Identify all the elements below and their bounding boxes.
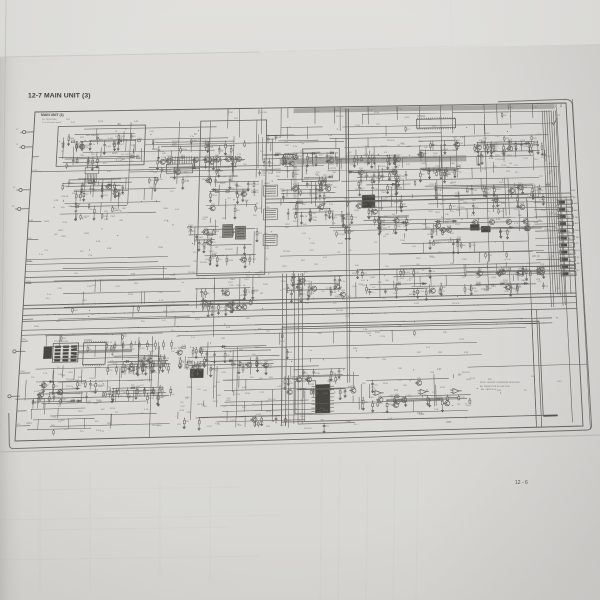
svg-text:100: 100 <box>208 260 212 262</box>
svg-text:IC3: IC3 <box>372 287 376 289</box>
svg-text:TP2: TP2 <box>87 403 92 405</box>
svg-text:100: 100 <box>197 389 201 391</box>
svg-text:Q105: Q105 <box>491 277 497 279</box>
svg-text:C214: C214 <box>419 291 425 293</box>
svg-text:10K: 10K <box>280 425 284 427</box>
svg-text:IC101 AN7312: IC101 AN7312 <box>54 340 69 343</box>
svg-text:10K: 10K <box>445 214 449 216</box>
svg-text:560: 560 <box>441 217 445 219</box>
svg-text:J2: J2 <box>16 144 19 146</box>
svg-text:C112: C112 <box>229 285 235 287</box>
svg-text:P7: P7 <box>576 243 579 245</box>
svg-text:2.2u: 2.2u <box>293 146 298 148</box>
svg-text:0.022: 0.022 <box>523 280 529 282</box>
svg-text:4.7K: 4.7K <box>84 147 89 149</box>
svg-text:J2: J2 <box>12 206 15 208</box>
svg-text:2SC945: 2SC945 <box>200 262 208 264</box>
svg-text:560: 560 <box>362 285 366 287</box>
svg-text:R118: R118 <box>92 190 98 192</box>
svg-text:220: 220 <box>276 176 280 178</box>
svg-text:33K: 33K <box>116 190 120 192</box>
svg-text:220: 220 <box>255 192 259 194</box>
svg-text:R305: R305 <box>294 174 300 176</box>
svg-text:Q105: Q105 <box>120 136 126 138</box>
svg-text:R157: R157 <box>227 307 233 309</box>
svg-text:R41: R41 <box>86 135 91 137</box>
svg-text:C214: C214 <box>360 170 366 172</box>
svg-text:100K: 100K <box>73 310 78 312</box>
svg-text:(IC,TR,DIODE): (IC,TR,DIODE) <box>42 119 57 121</box>
svg-text:560: 560 <box>139 391 143 393</box>
svg-text:33K: 33K <box>107 423 111 425</box>
svg-text:2SC945: 2SC945 <box>452 303 460 305</box>
svg-text:R216: R216 <box>228 260 234 262</box>
svg-text:C88: C88 <box>473 190 478 192</box>
svg-text:C73: C73 <box>140 374 145 376</box>
svg-text:6.8K: 6.8K <box>284 141 289 143</box>
svg-text:4.7K: 4.7K <box>482 169 487 171</box>
svg-text:100K: 100K <box>380 177 385 179</box>
svg-text:0.01: 0.01 <box>175 209 180 211</box>
svg-text:100K: 100K <box>502 149 507 151</box>
svg-text:C107: C107 <box>519 276 525 278</box>
svg-text:C73: C73 <box>156 348 161 350</box>
svg-text:Q105: Q105 <box>66 402 72 404</box>
svg-text:TP2: TP2 <box>283 289 288 291</box>
svg-text:0.01: 0.01 <box>398 380 403 382</box>
svg-text:C214: C214 <box>380 336 386 338</box>
svg-text:J1-4: J1-4 <box>576 250 581 252</box>
svg-text:TP2: TP2 <box>268 166 273 168</box>
svg-text:L21: L21 <box>440 204 444 206</box>
svg-text:47u: 47u <box>234 176 238 178</box>
svg-text:4.7K: 4.7K <box>43 373 48 375</box>
svg-text:10K: 10K <box>231 405 235 407</box>
svg-text:10K: 10K <box>313 220 317 222</box>
svg-text:100K: 100K <box>504 291 509 293</box>
svg-text:C88: C88 <box>119 220 124 222</box>
svg-text:6.8K: 6.8K <box>343 226 348 228</box>
svg-text:IC3: IC3 <box>217 424 220 426</box>
svg-text:C214: C214 <box>293 303 299 305</box>
svg-text:2SC945: 2SC945 <box>378 166 386 168</box>
svg-text:10K: 10K <box>488 288 492 290</box>
svg-text:TP2: TP2 <box>541 210 546 212</box>
svg-text:2SC: 2SC <box>215 155 220 157</box>
svg-text:R157: R157 <box>285 224 291 226</box>
svg-text:0.022: 0.022 <box>369 161 375 163</box>
svg-text:D12: D12 <box>140 385 145 387</box>
svg-text:8V: 8V <box>577 257 580 259</box>
svg-text:47u: 47u <box>260 422 264 424</box>
svg-text:2.2u: 2.2u <box>91 144 96 146</box>
svg-text:TP2: TP2 <box>167 165 172 167</box>
svg-text:R118: R118 <box>289 289 295 291</box>
svg-text:2SC945: 2SC945 <box>387 140 395 142</box>
svg-text:R216: R216 <box>264 248 270 250</box>
svg-text:R157: R157 <box>103 195 109 197</box>
svg-text:R216: R216 <box>128 294 134 296</box>
svg-text:L21: L21 <box>249 184 253 186</box>
svg-text:2SC: 2SC <box>237 303 242 305</box>
svg-text:4.7K: 4.7K <box>508 139 513 141</box>
svg-text:R157: R157 <box>446 422 452 424</box>
svg-text:10K: 10K <box>259 378 263 380</box>
svg-text:100K: 100K <box>347 331 352 333</box>
svg-text:J2: J2 <box>16 129 19 131</box>
svg-text:33K: 33K <box>70 183 74 185</box>
svg-text:R41: R41 <box>246 318 251 320</box>
svg-text:4.7K: 4.7K <box>555 288 560 290</box>
svg-text:R216: R216 <box>75 204 81 206</box>
svg-text:2SC945: 2SC945 <box>197 404 205 406</box>
svg-text:R41: R41 <box>131 145 136 147</box>
svg-text:C88: C88 <box>389 187 394 189</box>
svg-text:TP2: TP2 <box>325 426 330 428</box>
svg-text:100K: 100K <box>446 209 451 211</box>
svg-text:Q105: Q105 <box>370 158 376 160</box>
svg-text:Q101: Q101 <box>176 168 182 170</box>
svg-text:Q105: Q105 <box>546 156 552 158</box>
svg-text:TP2: TP2 <box>376 124 381 126</box>
svg-text:0.022: 0.022 <box>216 395 222 397</box>
svg-text:VR3: VR3 <box>99 381 104 383</box>
svg-text:100K: 100K <box>280 341 285 343</box>
svg-text:R305: R305 <box>34 326 40 328</box>
svg-text:R216: R216 <box>300 274 306 276</box>
svg-text:220: 220 <box>181 361 185 363</box>
svg-text:2SC945: 2SC945 <box>355 189 363 191</box>
svg-text:C112: C112 <box>89 378 95 380</box>
svg-text:L21: L21 <box>383 236 387 238</box>
svg-text:47u: 47u <box>334 217 338 219</box>
svg-text:C107: C107 <box>527 197 533 199</box>
svg-text:C73: C73 <box>131 274 136 276</box>
svg-text:C112: C112 <box>309 250 315 252</box>
svg-text:C112: C112 <box>246 143 252 145</box>
svg-text:220: 220 <box>359 182 363 184</box>
svg-text:0.022: 0.022 <box>436 194 442 196</box>
svg-text:R305: R305 <box>209 251 215 253</box>
svg-text:C107: C107 <box>158 292 164 294</box>
svg-text:10K: 10K <box>476 277 480 279</box>
svg-text:L21: L21 <box>418 137 422 139</box>
svg-text:33K: 33K <box>131 349 135 351</box>
svg-text:R216: R216 <box>85 145 91 147</box>
svg-text:R118: R118 <box>516 286 522 288</box>
svg-text:10K: 10K <box>450 263 454 265</box>
svg-text:4.7K: 4.7K <box>274 236 279 238</box>
svg-text:VR3: VR3 <box>22 339 27 341</box>
svg-text:R157: R157 <box>74 161 80 163</box>
svg-text:R118: R118 <box>61 399 67 401</box>
svg-text:0.022: 0.022 <box>34 391 40 393</box>
svg-text:C214: C214 <box>470 378 476 380</box>
svg-text:C112: C112 <box>547 258 553 260</box>
svg-text:R118: R118 <box>91 184 97 186</box>
svg-text:J2: J2 <box>13 187 16 189</box>
svg-text:Q12: Q12 <box>161 157 166 159</box>
svg-text:C107: C107 <box>76 144 82 146</box>
svg-text:C107: C107 <box>451 206 457 208</box>
svg-text:100K: 100K <box>422 153 427 155</box>
svg-text:Q105: Q105 <box>68 372 74 374</box>
svg-text:R41: R41 <box>301 260 306 262</box>
svg-text:220: 220 <box>366 358 370 360</box>
svg-text:Q101: Q101 <box>207 238 213 240</box>
svg-text:R118: R118 <box>254 290 260 292</box>
svg-text:4.7K: 4.7K <box>32 403 37 405</box>
svg-text:6.8K: 6.8K <box>58 374 63 376</box>
svg-text:IC3: IC3 <box>407 129 411 131</box>
svg-text:C88: C88 <box>531 376 536 378</box>
svg-text:47u: 47u <box>515 172 518 174</box>
svg-text:560: 560 <box>534 159 538 161</box>
svg-text:R118: R118 <box>347 231 353 233</box>
svg-text:2.2u: 2.2u <box>471 215 476 217</box>
svg-text:0.022: 0.022 <box>234 228 240 230</box>
svg-text:1K: 1K <box>407 224 410 226</box>
svg-text:1K: 1K <box>232 150 235 152</box>
svg-text:C112: C112 <box>524 269 530 271</box>
svg-text:6.8K: 6.8K <box>347 202 352 204</box>
svg-text:2.2u: 2.2u <box>47 294 52 296</box>
svg-text:100K: 100K <box>26 281 31 283</box>
svg-text:AF9: AF9 <box>575 222 580 225</box>
svg-text:2.2u: 2.2u <box>39 254 44 256</box>
svg-text:6.8K: 6.8K <box>29 220 34 222</box>
svg-text:R118: R118 <box>203 217 209 219</box>
svg-text:GND: GND <box>569 267 574 269</box>
svg-text:6.8K: 6.8K <box>277 137 282 139</box>
svg-text:560: 560 <box>250 377 254 379</box>
svg-text:0.01: 0.01 <box>268 193 272 195</box>
svg-text:C112: C112 <box>368 208 374 210</box>
svg-text:1K: 1K <box>524 390 527 392</box>
svg-text:2SC945: 2SC945 <box>283 251 291 253</box>
svg-text:C112: C112 <box>520 140 526 142</box>
svg-text:R157: R157 <box>166 364 172 366</box>
svg-text:TP2: TP2 <box>539 176 544 178</box>
svg-text:C214: C214 <box>170 275 176 277</box>
svg-text:R216: R216 <box>458 143 464 145</box>
svg-text:0.022: 0.022 <box>269 139 275 141</box>
svg-text:33K: 33K <box>362 383 366 385</box>
svg-text:2SC: 2SC <box>538 268 543 270</box>
svg-text:R216: R216 <box>213 401 219 403</box>
svg-text:100K: 100K <box>433 153 438 155</box>
svg-text:0.01: 0.01 <box>107 171 112 173</box>
svg-text:R216: R216 <box>267 365 273 367</box>
svg-text:10K: 10K <box>372 214 376 216</box>
svg-text:R41: R41 <box>141 321 146 323</box>
svg-text:33K: 33K <box>378 282 382 284</box>
svg-text:33K: 33K <box>91 154 95 156</box>
svg-text:100: 100 <box>109 370 113 372</box>
svg-text:L21: L21 <box>192 312 195 314</box>
svg-text:R41: R41 <box>322 179 327 181</box>
svg-text:10K: 10K <box>153 372 157 374</box>
svg-text:10K: 10K <box>242 407 246 409</box>
svg-text:10K: 10K <box>149 187 153 189</box>
svg-text:100K: 100K <box>500 159 505 161</box>
svg-text:R305: R305 <box>98 386 104 388</box>
svg-text:C107: C107 <box>87 286 93 288</box>
svg-text:33K: 33K <box>287 420 291 422</box>
svg-text:Q101: Q101 <box>242 190 248 192</box>
svg-text:10K: 10K <box>200 244 204 246</box>
svg-text:R305: R305 <box>450 163 456 165</box>
svg-text:IC3: IC3 <box>384 152 388 154</box>
svg-text:Q73: Q73 <box>264 361 269 363</box>
svg-text:C88: C88 <box>221 338 226 340</box>
svg-text:100: 100 <box>136 155 140 157</box>
svg-text:2SC: 2SC <box>518 183 523 185</box>
svg-text:0.01: 0.01 <box>160 388 165 390</box>
svg-text:33K: 33K <box>92 334 96 336</box>
svg-text:R157: R157 <box>89 164 95 166</box>
svg-text:D12: D12 <box>255 184 260 186</box>
svg-text:4.7K: 4.7K <box>139 368 144 370</box>
svg-text:R216: R216 <box>353 348 358 350</box>
svg-text:10K: 10K <box>45 385 49 387</box>
svg-text:2SC945: 2SC945 <box>338 234 346 236</box>
svg-text:R216: R216 <box>103 216 109 218</box>
svg-text:47u: 47u <box>495 207 499 209</box>
svg-text:C73: C73 <box>395 167 400 169</box>
svg-text:4.7K: 4.7K <box>147 368 152 370</box>
svg-text:C107: C107 <box>218 151 224 153</box>
svg-text:10K: 10K <box>178 358 182 360</box>
svg-text:Q101: Q101 <box>525 224 531 226</box>
svg-text:C88: C88 <box>80 155 85 157</box>
svg-text:C112: C112 <box>115 286 121 288</box>
svg-text:D12: D12 <box>125 154 130 156</box>
svg-text:4.7K: 4.7K <box>444 176 449 178</box>
svg-text:C73: C73 <box>260 392 265 394</box>
svg-text:33K: 33K <box>443 332 447 334</box>
svg-text:2SC: 2SC <box>378 396 383 398</box>
svg-text:100: 100 <box>332 223 336 225</box>
svg-text:C88: C88 <box>398 368 403 370</box>
svg-text:0.01: 0.01 <box>323 257 328 259</box>
svg-text:R305: R305 <box>61 236 67 238</box>
svg-text:C88: C88 <box>229 112 234 114</box>
svg-text:C107: C107 <box>82 300 88 302</box>
svg-text:C112: C112 <box>149 131 155 133</box>
svg-text:220: 220 <box>319 155 323 157</box>
svg-text:100K: 100K <box>236 285 241 287</box>
svg-text:R216: R216 <box>300 416 306 418</box>
svg-text:C112: C112 <box>57 288 63 290</box>
svg-text:R157: R157 <box>163 311 169 313</box>
svg-text:2.2u: 2.2u <box>353 217 358 219</box>
svg-text:D12: D12 <box>167 306 172 308</box>
svg-text:47u: 47u <box>342 299 345 301</box>
svg-text:C112: C112 <box>72 388 78 390</box>
svg-text:33K: 33K <box>445 222 449 224</box>
svg-text:6.8K: 6.8K <box>54 200 59 202</box>
svg-text:R41: R41 <box>472 200 477 202</box>
svg-text:C107: C107 <box>481 289 487 291</box>
svg-text:C73: C73 <box>332 168 337 170</box>
svg-text:2SC945: 2SC945 <box>336 116 344 118</box>
svg-text:TP2: TP2 <box>68 206 73 208</box>
svg-text:R118: R118 <box>476 282 482 284</box>
svg-text:100K: 100K <box>163 208 169 210</box>
svg-text:R305: R305 <box>91 135 97 137</box>
svg-text:IC3: IC3 <box>299 142 302 144</box>
svg-text:R216: R216 <box>345 219 351 221</box>
svg-text:220: 220 <box>495 146 499 148</box>
svg-text:R305: R305 <box>359 160 365 162</box>
svg-text:220: 220 <box>212 242 216 244</box>
svg-text:D12: D12 <box>305 303 310 305</box>
svg-text:R41: R41 <box>66 119 71 121</box>
svg-text:TP2: TP2 <box>266 331 271 333</box>
svg-text:Q105: Q105 <box>115 210 121 212</box>
svg-text:0.01: 0.01 <box>61 143 66 145</box>
svg-text:C107: C107 <box>381 192 387 194</box>
svg-text:100: 100 <box>385 266 389 268</box>
svg-text:Q105: Q105 <box>188 231 194 233</box>
svg-text:R41: R41 <box>372 403 377 405</box>
svg-text:R305: R305 <box>201 364 207 366</box>
svg-text:R157: R157 <box>422 224 428 226</box>
svg-text:33K: 33K <box>187 412 191 414</box>
svg-text:D12: D12 <box>258 233 263 235</box>
svg-text:R118: R118 <box>502 231 508 233</box>
svg-text:R157: R157 <box>330 181 336 183</box>
svg-text:6.8K: 6.8K <box>434 409 439 411</box>
svg-text:33K: 33K <box>207 160 211 162</box>
svg-text:10K: 10K <box>403 385 407 387</box>
svg-text:SQL: SQL <box>568 245 573 247</box>
svg-text:R216: R216 <box>172 145 177 147</box>
svg-text:47u: 47u <box>379 403 383 405</box>
svg-text:47u: 47u <box>64 429 68 431</box>
svg-text:4.7K: 4.7K <box>430 171 435 173</box>
svg-text:47u: 47u <box>150 180 153 182</box>
svg-text:6.8K: 6.8K <box>534 222 539 224</box>
svg-text:10K: 10K <box>318 333 322 335</box>
svg-text:VR3: VR3 <box>314 264 319 266</box>
svg-text:Q105: Q105 <box>140 366 146 368</box>
svg-text:Q105: Q105 <box>405 272 411 274</box>
svg-text:6.8K: 6.8K <box>279 158 284 160</box>
svg-text:8V: 8V <box>577 270 580 272</box>
svg-text:Q105: Q105 <box>501 273 507 275</box>
svg-text:560: 560 <box>355 265 359 267</box>
svg-text:C112: C112 <box>267 367 273 369</box>
svg-text:C73: C73 <box>44 250 49 252</box>
svg-text:6.8K: 6.8K <box>394 202 399 204</box>
svg-text:R157: R157 <box>427 119 433 121</box>
svg-text:2.2u: 2.2u <box>185 180 190 182</box>
svg-text:R118: R118 <box>374 112 380 114</box>
svg-text:C107: C107 <box>317 412 323 414</box>
svg-text:C73: C73 <box>306 281 311 283</box>
svg-text:R41: R41 <box>177 424 182 426</box>
svg-text:R305: R305 <box>335 296 341 298</box>
svg-text:Q105: Q105 <box>157 425 163 427</box>
svg-text:R118: R118 <box>400 240 406 242</box>
svg-text:C88: C88 <box>385 234 390 236</box>
svg-text:VR3: VR3 <box>497 390 502 392</box>
svg-text:D12: D12 <box>242 235 247 237</box>
svg-text:C88: C88 <box>533 138 538 140</box>
svg-text:6.8K: 6.8K <box>107 248 112 250</box>
